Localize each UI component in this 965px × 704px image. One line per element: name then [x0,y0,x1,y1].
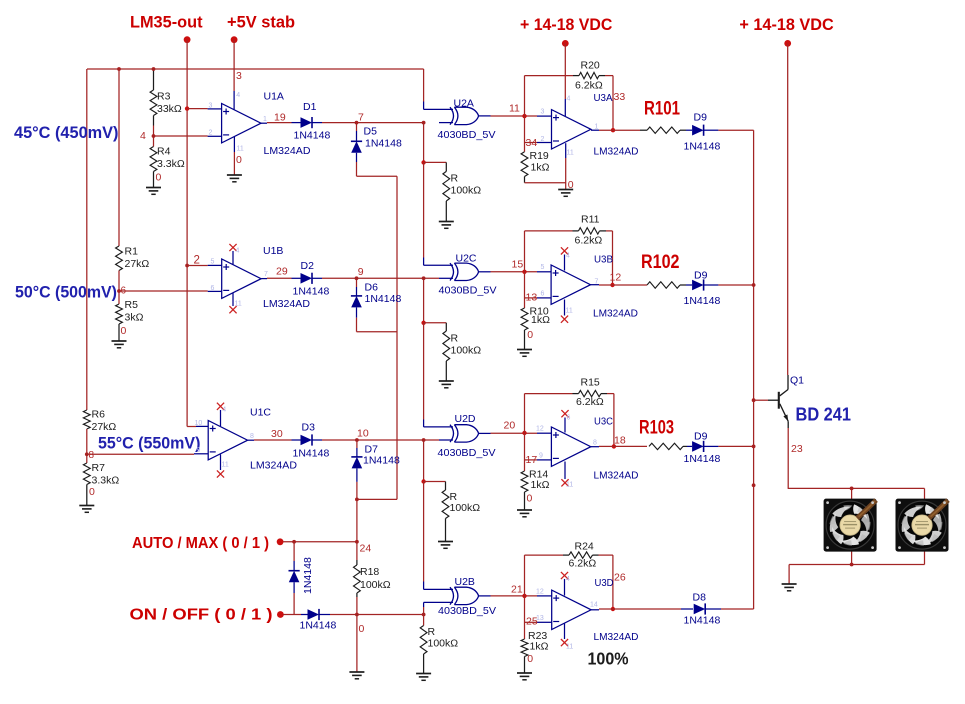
svg-text:1kΩ: 1kΩ [531,314,550,326]
svg-text:1N4148: 1N4148 [684,141,721,153]
svg-text:33kΩ: 33kΩ [157,103,182,115]
svg-text:1kΩ: 1kΩ [531,162,550,174]
svg-text:1N4148: 1N4148 [293,286,330,298]
svg-text:U2B: U2B [455,576,475,588]
svg-text:2: 2 [194,255,200,267]
svg-text:5: 5 [541,264,545,271]
svg-text:11: 11 [509,103,520,115]
svg-text:R103: R103 [639,418,674,439]
svg-text:1: 1 [595,124,599,131]
svg-text:14: 14 [590,602,598,609]
svg-text:U2A: U2A [454,98,474,110]
svg-text:9: 9 [539,453,543,460]
svg-text:8: 8 [250,433,254,440]
svg-text:R24: R24 [575,541,594,553]
svg-text:D3: D3 [302,422,316,434]
svg-text:4: 4 [140,130,146,142]
svg-text:1: 1 [263,116,267,123]
svg-text:11: 11 [237,146,244,153]
svg-text:6.2kΩ: 6.2kΩ [575,235,603,247]
svg-text:4: 4 [566,576,570,583]
svg-text:20: 20 [504,420,516,432]
svg-text:1N4148: 1N4148 [293,448,330,460]
svg-text:23: 23 [791,443,803,455]
svg-text:24: 24 [360,543,372,555]
svg-text:1N4148: 1N4148 [684,295,721,307]
svg-text:26: 26 [614,572,626,584]
svg-text:1N4148: 1N4148 [365,138,402,150]
svg-text:9: 9 [358,266,364,278]
svg-text:U3C: U3C [594,416,613,428]
svg-text:R101: R101 [644,99,680,120]
svg-text:27kΩ: 27kΩ [125,258,150,270]
svg-text:AUTO / MAX ( 0 / 1 ): AUTO / MAX ( 0 / 1 ) [132,535,269,552]
svg-text:12: 12 [536,589,544,596]
svg-text:12: 12 [536,426,544,433]
svg-text:LM324AD: LM324AD [250,460,297,472]
svg-text:6: 6 [121,286,127,297]
svg-text:ON / OFF ( 0 / 1 ): ON / OFF ( 0 / 1 ) [130,607,273,624]
svg-text:0: 0 [527,653,533,665]
svg-text:100kΩ: 100kΩ [451,345,482,357]
svg-text:LM324AD: LM324AD [594,146,639,158]
svg-text:7: 7 [264,271,268,278]
svg-text:8: 8 [593,440,597,447]
svg-text:10: 10 [357,428,369,440]
svg-text:D6: D6 [365,282,379,294]
svg-text:7: 7 [358,112,364,124]
svg-text:1N4148: 1N4148 [294,130,331,142]
svg-text:4030BD_5V: 4030BD_5V [438,605,496,617]
svg-text:U1A: U1A [264,91,284,103]
svg-text:6.2kΩ: 6.2kΩ [576,396,604,408]
svg-text:6: 6 [541,291,545,298]
svg-text:2: 2 [541,136,545,143]
svg-text:12: 12 [610,272,622,284]
svg-text:100kΩ: 100kΩ [451,185,482,197]
svg-text:+5V stab: +5V stab [227,14,295,32]
svg-text:+ 14-18 VDC: + 14-18 VDC [739,16,834,34]
svg-text:LM324AD: LM324AD [264,145,311,157]
svg-text:21: 21 [511,584,523,596]
svg-text:D9: D9 [694,112,708,124]
svg-text:13: 13 [526,292,538,304]
svg-text:11: 11 [567,150,574,157]
svg-text:U3A: U3A [594,92,613,104]
svg-text:0: 0 [527,329,533,341]
svg-text:1N4148: 1N4148 [365,293,402,305]
svg-text:0: 0 [236,154,242,166]
svg-text:D5: D5 [364,126,378,138]
svg-text:17: 17 [526,454,538,466]
svg-text:2: 2 [209,130,213,137]
svg-text:0: 0 [121,325,127,337]
svg-text:1N4148: 1N4148 [684,453,721,465]
svg-text:U3D: U3D [595,577,614,589]
svg-text:0: 0 [527,493,533,505]
svg-text:5: 5 [211,259,215,266]
svg-text:3: 3 [236,70,242,82]
svg-text:11: 11 [566,644,573,651]
svg-text:3: 3 [541,109,545,116]
svg-text:D1: D1 [303,101,317,113]
svg-text:4: 4 [236,248,240,255]
svg-text:+ 14-18 VDC: + 14-18 VDC [520,16,613,34]
svg-text:U2C: U2C [456,253,477,265]
svg-text:100kΩ: 100kΩ [360,579,391,591]
svg-text:4: 4 [222,407,226,414]
svg-text:4: 4 [236,92,240,99]
svg-text:0: 0 [359,623,365,635]
svg-text:LM324AD: LM324AD [594,470,639,482]
svg-text:3kΩ: 3kΩ [125,312,144,324]
svg-text:R5: R5 [125,299,139,311]
svg-text:R: R [451,173,459,185]
svg-text:Q1: Q1 [790,375,804,387]
svg-text:55°C (550mV): 55°C (550mV) [98,435,200,453]
svg-text:6: 6 [567,415,571,422]
svg-text:29: 29 [276,266,288,278]
svg-text:3.3kΩ: 3.3kΩ [157,158,185,170]
svg-text:100%: 100% [588,649,629,669]
svg-text:1N4148: 1N4148 [302,557,314,594]
svg-text:18: 18 [614,435,626,447]
svg-text:11: 11 [235,301,242,308]
svg-text:R18: R18 [360,566,379,578]
svg-text:R: R [451,333,459,345]
svg-text:33: 33 [614,91,626,103]
svg-text:0: 0 [89,486,95,498]
svg-text:4: 4 [567,96,571,103]
svg-text:4: 4 [566,253,570,260]
svg-text:1kΩ: 1kΩ [531,479,550,491]
svg-text:11: 11 [566,308,573,315]
svg-text:R15: R15 [581,377,600,389]
svg-text:19: 19 [274,112,286,124]
svg-text:R1: R1 [125,246,139,258]
svg-text:D9: D9 [694,270,708,282]
svg-text:34: 34 [526,137,538,149]
svg-text:4030BD_5V: 4030BD_5V [438,129,496,141]
svg-text:LM324AD: LM324AD [263,298,310,310]
svg-text:LM324AD: LM324AD [593,308,638,320]
svg-text:10: 10 [195,420,203,427]
svg-text:U2D: U2D [455,413,476,425]
svg-text:R102: R102 [641,252,680,273]
svg-text:R3: R3 [157,91,171,103]
svg-text:R20: R20 [581,60,600,72]
svg-text:R7: R7 [92,462,106,474]
svg-text:D8: D8 [693,592,707,604]
svg-text:45°C (450mV): 45°C (450mV) [14,124,119,142]
svg-text:1N4148: 1N4148 [684,615,721,627]
svg-text:U1C: U1C [250,407,271,419]
svg-text:0: 0 [568,179,574,191]
svg-text:LM324AD: LM324AD [594,631,639,643]
svg-text:100kΩ: 100kΩ [450,502,481,514]
svg-text:7: 7 [595,279,599,286]
svg-text:BD 241: BD 241 [796,404,852,425]
svg-text:11: 11 [566,482,573,489]
svg-text:R: R [428,626,436,638]
svg-text:U3B: U3B [594,254,613,266]
svg-text:1N4148: 1N4148 [363,455,400,467]
svg-text:4030BD_5V: 4030BD_5V [439,285,497,297]
svg-text:1N4148: 1N4148 [300,620,337,632]
svg-text:D2: D2 [301,260,315,272]
svg-text:4030BD_5V: 4030BD_5V [438,447,496,459]
svg-text:27kΩ: 27kΩ [92,421,117,433]
svg-text:6.2kΩ: 6.2kΩ [575,80,603,92]
svg-text:9: 9 [197,447,201,454]
svg-text:11: 11 [222,462,229,469]
svg-text:D9: D9 [694,431,708,443]
svg-text:6.2kΩ: 6.2kΩ [569,558,597,570]
svg-text:R4: R4 [157,146,171,158]
svg-text:30: 30 [271,428,283,440]
svg-text:6: 6 [211,285,215,292]
svg-text:R6: R6 [92,409,106,421]
svg-text:R11: R11 [581,214,600,226]
svg-text:3: 3 [209,103,213,110]
svg-text:0: 0 [156,172,162,184]
svg-text:U1B: U1B [263,245,283,257]
svg-text:1kΩ: 1kΩ [530,641,549,653]
svg-text:13: 13 [536,615,544,622]
svg-text:8: 8 [89,450,95,461]
svg-text:15: 15 [512,259,524,271]
svg-text:R19: R19 [530,150,549,162]
svg-text:100kΩ: 100kΩ [428,638,459,650]
svg-text:50°C (500mV): 50°C (500mV) [15,284,117,302]
svg-text:3.3kΩ: 3.3kΩ [92,475,120,487]
svg-text:LM35-out: LM35-out [130,14,203,32]
